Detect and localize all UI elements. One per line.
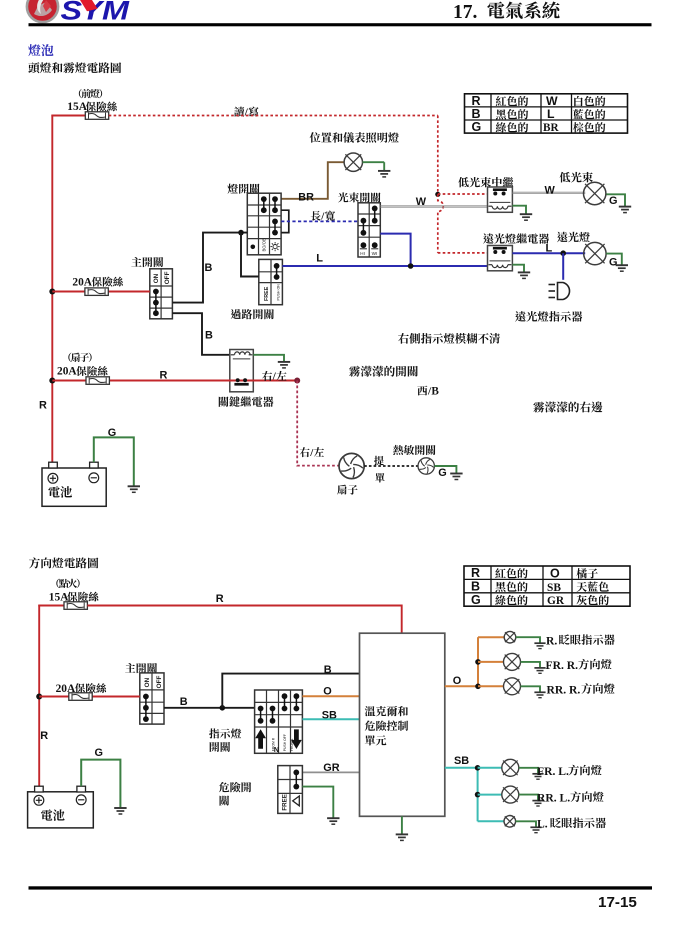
label B upper	[205, 262, 213, 274]
wire R dashed to high-beam relay	[438, 252, 488, 254]
wire R vertical (diagram2)	[38, 605, 40, 787]
label main switch 2	[125, 663, 157, 673]
label SB (left)	[322, 709, 337, 721]
text xi/B	[417, 385, 439, 397]
wire O vertical	[477, 637, 479, 686]
label high-beam indicator	[515, 311, 582, 322]
SYM logo text	[61, 0, 131, 26]
svg-text:15A: 15A	[67, 101, 87, 113]
label W (left)	[416, 196, 427, 208]
relay high-beam	[488, 246, 513, 271]
svg-text:O: O	[550, 566, 560, 580]
svg-text:R.: R.	[546, 635, 557, 648]
junction SB b1	[475, 765, 481, 771]
fuse F5	[69, 693, 92, 701]
label high-beam relay	[483, 233, 549, 243]
text foggy right side	[533, 401, 602, 412]
wire L relay to lamp	[512, 252, 585, 254]
svg-text:R: R	[472, 94, 481, 108]
title deng-pao (bulbs)	[28, 44, 53, 56]
label R mid	[160, 370, 168, 382]
label deng-kai-guan (light switch)	[228, 184, 260, 194]
svg-text:B: B	[472, 107, 481, 121]
label L (right)	[546, 242, 553, 254]
label dan	[375, 473, 385, 482]
svg-text:B: B	[471, 580, 480, 594]
wire R dashed to low-beam relay	[438, 193, 488, 195]
wire G control unit	[401, 816, 403, 834]
label zhu-kai-guan (main switch) 1	[131, 257, 163, 267]
wire R to main switch 1	[52, 291, 150, 293]
svg-text:B: B	[180, 696, 188, 708]
wire BR brown	[281, 162, 344, 199]
label fuse F3 20A	[57, 366, 108, 378]
svg-text:L: L	[316, 253, 323, 265]
wire SB from control unit	[445, 767, 478, 769]
footer rule	[29, 886, 653, 889]
wire R dashed top (read/write)	[109, 115, 438, 117]
wire L down to indicator	[562, 253, 564, 280]
wire R to main switch 2	[39, 696, 140, 698]
svg-text:OFF: OFF	[164, 271, 171, 284]
label fuse F4 15A	[49, 591, 99, 603]
wire R to fuse F1	[51, 115, 85, 117]
junction fan branch	[294, 378, 300, 384]
connector passing switch	[259, 259, 283, 304]
label G high-beam	[609, 256, 617, 268]
turn lamp FR.R	[478, 653, 546, 673]
svg-text:HI: HI	[360, 251, 365, 256]
svg-text:PUSH ON: PUSH ON	[277, 284, 281, 301]
label (ignition)	[56, 579, 79, 588]
label fuse F2 20A	[72, 276, 123, 288]
label you/zuo (right/left) upper	[262, 371, 286, 383]
turn lamp R indicator	[478, 631, 546, 648]
wire W beam switch to relay coil	[380, 205, 487, 207]
label guang-shu-kai-guan (beam switch)	[338, 192, 380, 202]
svg-text:FREE: FREE	[264, 286, 270, 301]
legend table 1 (R/W/B/L/G/BR colors)	[465, 94, 628, 134]
svg-text:RR. R.: RR. R.	[547, 683, 581, 696]
label low-beam relay	[458, 177, 513, 187]
page number 17-15	[598, 894, 637, 911]
junction SB b2	[475, 792, 481, 798]
svg-text:ON: ON	[144, 677, 151, 687]
SYM logo emblem	[27, 0, 58, 22]
junction O b3	[475, 684, 481, 690]
wire SB to control unit	[302, 718, 359, 720]
junction R/fuse2	[49, 289, 55, 295]
svg-text:B: B	[205, 262, 213, 274]
label thermal switch	[393, 445, 435, 455]
connector beam switch	[358, 203, 380, 257]
label guan-jian-ji-dian-qi (key relay)	[219, 396, 274, 407]
label fuse F5 20A	[56, 683, 107, 695]
label G low-beam	[609, 195, 617, 207]
wire SB vertical	[477, 768, 479, 822]
wire L blue from beam switch	[380, 234, 410, 266]
wire G high-beam lamp	[606, 254, 622, 265]
label BR	[298, 191, 314, 203]
control unit box	[360, 633, 445, 816]
svg-text:RR. L.: RR. L.	[537, 792, 570, 805]
svg-text:G: G	[471, 593, 481, 607]
icon high-beam indicator	[549, 283, 570, 300]
wire W relay to lamp	[512, 191, 585, 193]
wire G down to ground	[383, 162, 385, 170]
wire R main vertical	[51, 115, 53, 463]
thermal switch	[418, 458, 434, 474]
label FR.R	[546, 659, 612, 672]
fuse F3	[86, 377, 109, 385]
label O (right)	[453, 675, 462, 687]
svg-text:B: B	[205, 330, 213, 342]
svg-text:OFF: OFF	[156, 676, 163, 689]
label control unit	[365, 706, 408, 746]
wire R top to fuse F4	[38, 605, 64, 607]
svg-text:W: W	[416, 196, 427, 208]
svg-text:BO/OB: BO/OB	[262, 238, 267, 251]
ground high-beam relay	[518, 272, 530, 278]
text right indicator blurred	[398, 333, 500, 344]
label B (diagram2 upper)	[324, 664, 332, 676]
wire O from control unit	[445, 685, 478, 687]
wire G battery1	[94, 437, 134, 485]
wire G low-beam relay	[512, 206, 526, 214]
wire G battery2	[81, 760, 120, 808]
wire R dashed right vertical	[437, 116, 439, 194]
ground battery1	[128, 486, 140, 492]
svg-text:GR: GR	[547, 595, 565, 607]
battery 2	[28, 786, 94, 828]
header rule	[29, 23, 652, 26]
ground thermal switch	[450, 474, 462, 480]
label B lower	[205, 330, 213, 342]
ground key relay	[278, 362, 290, 368]
wire R/L dashed to fan	[297, 381, 339, 466]
fuse F2	[85, 288, 108, 296]
label L (diagram1)	[316, 253, 323, 265]
svg-text:PUSH OFF: PUSH OFF	[283, 734, 287, 751]
wire G from position lamp	[363, 161, 385, 163]
label G battery1	[108, 427, 116, 439]
connector indicator switch	[255, 690, 303, 754]
svg-text:SB: SB	[454, 755, 469, 767]
svg-text:G: G	[609, 195, 617, 207]
wire GR to control unit	[302, 771, 359, 773]
turn lamp RR.R	[478, 678, 546, 698]
svg-text:FR. L.: FR. L.	[537, 765, 569, 778]
svg-text:G: G	[95, 747, 103, 759]
label FR.L	[537, 765, 602, 778]
label L blink indicator	[537, 818, 606, 831]
label indicator switch	[209, 728, 241, 752]
svg-text:17-15: 17-15	[598, 894, 637, 911]
wire G high-beam relay	[512, 265, 524, 272]
connector main switch 1	[150, 269, 173, 319]
junction red dashed node	[435, 192, 440, 197]
wire fan to thermal switch (dashed)	[364, 465, 418, 467]
svg-text:L: L	[547, 107, 555, 121]
label R left	[39, 399, 47, 411]
ground battery2	[114, 808, 126, 814]
subtitle headlight+foglight circuit	[28, 62, 121, 73]
wire R dashed hop over W wire	[438, 194, 444, 253]
lamp high-beam	[584, 242, 606, 264]
svg-text:G: G	[472, 120, 482, 134]
label O	[323, 685, 332, 697]
svg-text:R: R	[471, 566, 480, 580]
wire B main-switch to light-switch	[172, 233, 247, 303]
label you/zuo lower	[300, 447, 324, 459]
wire B up to control unit	[222, 674, 359, 708]
svg-text:20A: 20A	[72, 276, 92, 288]
svg-text:B: B	[431, 385, 439, 397]
label position and meter illumination light	[310, 132, 399, 143]
junction O b2	[475, 659, 481, 665]
wire G hazard to ground	[302, 787, 333, 818]
label RR.R	[547, 683, 615, 696]
wire R to control unit	[87, 606, 401, 634]
ground hazard switch	[327, 818, 339, 824]
ground position lamp	[378, 171, 390, 177]
wire G from key relay	[253, 355, 284, 362]
wire L dashed blue (long/wide)	[281, 220, 358, 222]
connector light switch	[247, 193, 281, 255]
svg-text:L.: L.	[537, 818, 548, 831]
svg-text:WI: WI	[372, 251, 378, 256]
label RR.L	[537, 791, 604, 804]
svg-text:ON: ON	[153, 273, 160, 283]
junction high-beam indicator	[560, 250, 566, 256]
svg-text:FROM L: FROM L	[290, 738, 294, 751]
label fuse F1 15A	[67, 101, 117, 113]
text foggy switch	[349, 366, 418, 377]
label du/xie (read/write)	[234, 106, 258, 118]
fan motor	[339, 453, 364, 478]
title turn-signal circuit	[29, 557, 98, 568]
legend table 2 (R/O/B/SB/G/GR colors)	[464, 566, 630, 607]
label W (right)	[545, 184, 556, 196]
label (front light)	[79, 89, 102, 98]
fuse F1	[85, 112, 108, 120]
junction B branch	[238, 230, 244, 236]
turn lamp L indicator	[478, 816, 542, 833]
svg-text:G: G	[438, 467, 446, 479]
svg-text:W: W	[546, 94, 558, 108]
label guo-lu-kai-guan (passing switch)	[231, 309, 274, 319]
battery 1	[42, 462, 106, 506]
svg-text:R: R	[39, 399, 47, 411]
svg-text:G: G	[609, 256, 617, 268]
svg-text:17.: 17.	[453, 2, 478, 23]
ground low-beam lamp	[619, 207, 631, 213]
label (fan)	[68, 353, 91, 362]
svg-text:W: W	[545, 184, 556, 196]
connector main switch 2	[140, 673, 164, 724]
wire B to indicator switch	[164, 707, 255, 709]
junction L/beam-switch	[408, 263, 414, 269]
relay key contacts	[234, 378, 248, 385]
label SB (right)	[454, 755, 469, 767]
label G battery2	[95, 747, 103, 759]
svg-text:20A: 20A	[57, 366, 77, 378]
svg-text:N: N	[274, 747, 279, 754]
label R blink indicator	[546, 634, 615, 647]
svg-text:R: R	[40, 730, 48, 742]
label GR	[323, 762, 339, 774]
svg-text:BR: BR	[543, 122, 559, 134]
lamp low-beam	[584, 182, 606, 204]
turn lamp RR.L	[478, 786, 544, 806]
label shan-zi (fan)	[337, 485, 357, 495]
label hazard switch	[219, 782, 251, 806]
wire R fan branch	[52, 380, 297, 382]
label low-beam lamp	[560, 172, 593, 183]
wire B main-switch to key relay	[172, 313, 229, 355]
label R left (diagram2)	[40, 730, 48, 742]
svg-text:M: M	[102, 0, 130, 26]
label ti	[374, 456, 384, 466]
relay key (box)	[230, 350, 254, 392]
label R top (diagram2)	[216, 593, 224, 605]
turn lamp FR.L	[478, 759, 544, 779]
lamp position light	[344, 153, 362, 171]
bracket rows2-4 light switch	[281, 210, 289, 232]
wire B branch to passing switch	[241, 233, 259, 277]
svg-text:FREE: FREE	[282, 794, 289, 811]
ground control unit	[396, 834, 408, 840]
label B (diagram2 left)	[180, 696, 188, 708]
fuse F4	[64, 602, 87, 610]
wire G thermal switch	[434, 466, 456, 473]
ground low-beam relay	[520, 214, 532, 220]
svg-text:FR. R.: FR. R.	[546, 659, 579, 672]
junction R/fuse3	[49, 378, 55, 384]
relay low-beam	[488, 187, 513, 212]
label G thermal	[438, 467, 446, 479]
svg-text:R: R	[216, 593, 224, 605]
svg-text:SB: SB	[547, 582, 561, 594]
wire L main blue	[282, 265, 487, 267]
ground high-beam lamp	[616, 265, 628, 271]
junction B (diagram2)	[220, 705, 226, 711]
svg-text:L: L	[546, 242, 553, 254]
junction R/fuse5	[36, 694, 42, 700]
svg-text:BR: BR	[298, 191, 314, 203]
label chang/kuan (long/wide)	[311, 211, 335, 223]
wire G low-beam lamp	[606, 194, 625, 206]
svg-text:O: O	[453, 675, 462, 687]
svg-text:S: S	[61, 0, 83, 26]
header title 17. dian-qi-xi-tong	[453, 1, 560, 22]
connector hazard switch	[278, 766, 303, 814]
wire O to control unit	[302, 695, 359, 697]
label high-beam lamp	[557, 232, 590, 242]
